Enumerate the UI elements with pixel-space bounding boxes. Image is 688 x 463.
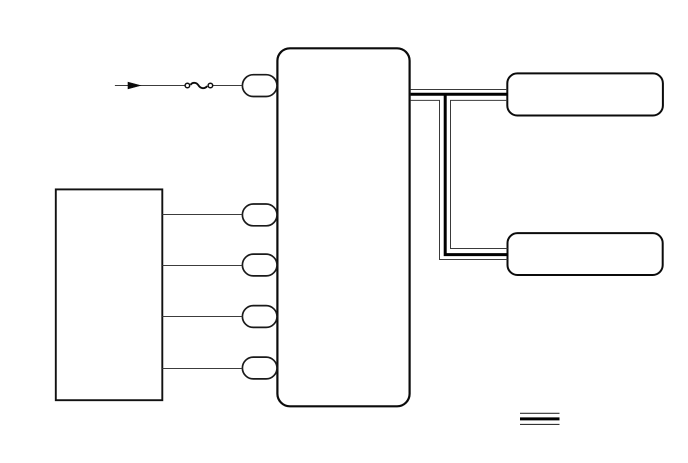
arrowhead on W0 — [128, 82, 141, 89]
block B3 (top-right rounded rectangle) — [507, 73, 663, 115]
interruption symbol circle left — [185, 83, 190, 88]
legend thin line top — [520, 412, 560, 414]
legend thin line bottom — [520, 423, 560, 425]
interruption symbol tilde — [191, 83, 208, 88]
bus thick segment A (B2 to B3) — [411, 93, 508, 96]
bus thin outline inner (right of branch) — [451, 100, 508, 248]
port P2 — [242, 204, 277, 226]
block B4 (bottom-right rounded rectangle) — [508, 233, 663, 275]
interruption symbol circle right — [208, 83, 213, 88]
wire W0 (input line, right part into P1) — [213, 85, 242, 87]
wire W1 (B1 to P2) — [162, 214, 242, 216]
wire W2 (B1 to P3) — [162, 265, 242, 267]
bus thin outline upper (B2 to B3) — [411, 89, 508, 91]
bus thick segment B (branch down then right to B4) — [445, 94, 507, 254]
port P5 — [242, 357, 277, 379]
bus thin outline outer (lower-left of branch) — [411, 100, 508, 259]
wire W4 (B1 to P5) — [162, 368, 242, 370]
wire W0 (input line, left part) — [115, 85, 185, 87]
port P4 — [242, 306, 277, 328]
wire W3 (B1 to P4) — [162, 316, 242, 318]
block B1 (left rectangle) — [56, 189, 163, 400]
block B2 (central rounded rectangle) — [277, 48, 409, 406]
port P3 — [242, 254, 277, 276]
legend thick line — [520, 417, 560, 420]
port P1 (stadium on B2 left edge, top) — [242, 75, 277, 97]
